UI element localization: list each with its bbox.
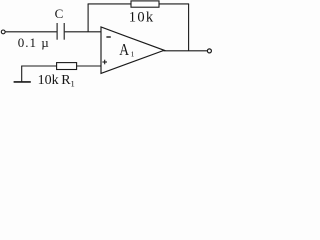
wire capacitor to inverting input xyxy=(65,31,101,33)
plus input pin mark xyxy=(102,61,107,63)
resistor R1 xyxy=(57,63,77,70)
capacitor C xyxy=(56,23,58,40)
wire top to feedback resistor xyxy=(88,3,131,5)
wire feedback resistor to output node xyxy=(159,3,189,5)
wire ground to R1 xyxy=(22,65,57,67)
ground xyxy=(21,66,23,82)
wire input to capacitor xyxy=(5,31,56,33)
svg-text:1: 1 xyxy=(131,50,135,59)
svg-text:0.1 µ: 0.1 µ xyxy=(18,35,50,50)
op-amp A1 xyxy=(101,27,164,73)
wire feedback down to output xyxy=(188,4,190,51)
svg-text:10k: 10k xyxy=(129,9,154,25)
svg-text:10kR1: 10kR1 xyxy=(38,73,75,88)
svg-text:C: C xyxy=(55,6,64,21)
minus input pin mark xyxy=(106,36,110,38)
output wire xyxy=(164,50,208,52)
svg-text:A: A xyxy=(119,42,129,59)
wire feedback tap (node at inverting input) xyxy=(87,4,89,32)
input terminal xyxy=(1,30,5,34)
wire R1 to non-inverting input xyxy=(77,65,101,67)
resistor 10k feedback xyxy=(131,1,159,7)
output terminal xyxy=(207,49,211,53)
